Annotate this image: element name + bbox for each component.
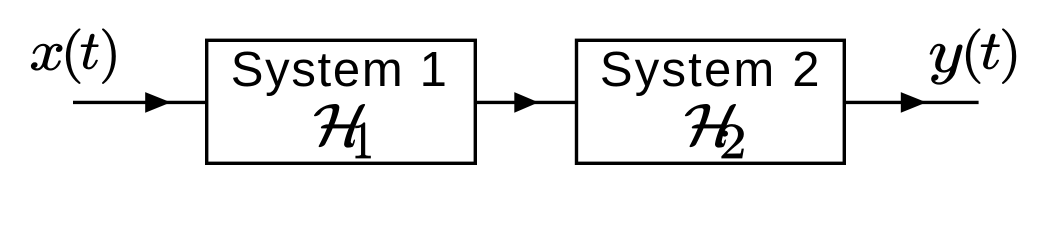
block: System 1 box bbox=[207, 40, 476, 163]
arrowhead on output wire bbox=[901, 92, 927, 113]
x(t) glyph t bbox=[81, 34, 98, 69]
svg-text:System 2: System 2 bbox=[600, 43, 822, 97]
wire: input x(t) to System 1 bbox=[73, 101, 207, 104]
wire: System 1 to System 2 bbox=[475, 101, 577, 104]
y(t) left paren bbox=[966, 29, 980, 84]
y(t) glyph t bbox=[981, 34, 1000, 69]
subscript 2 of script-H bbox=[722, 124, 744, 158]
input signal label x(t): glyph x bbox=[31, 44, 62, 70]
x(t) left paren bbox=[66, 29, 80, 84]
output signal label y(t): glyph y bbox=[930, 44, 962, 84]
arrowhead on input wire bbox=[145, 92, 171, 113]
y(t) right paren bbox=[1002, 29, 1016, 84]
x(t) right paren bbox=[102, 29, 115, 84]
operator symbol script-H in System 1 bbox=[311, 104, 365, 147]
wire: System 2 to output y(t) bbox=[844, 101, 979, 104]
arrowhead on middle wire bbox=[514, 92, 538, 113]
svg-text:System 1: System 1 bbox=[231, 43, 449, 97]
subscript 1 of script-H bbox=[355, 123, 370, 158]
operator symbol script-H in System 2 bbox=[682, 104, 736, 147]
block: System 2 box bbox=[577, 40, 845, 163]
